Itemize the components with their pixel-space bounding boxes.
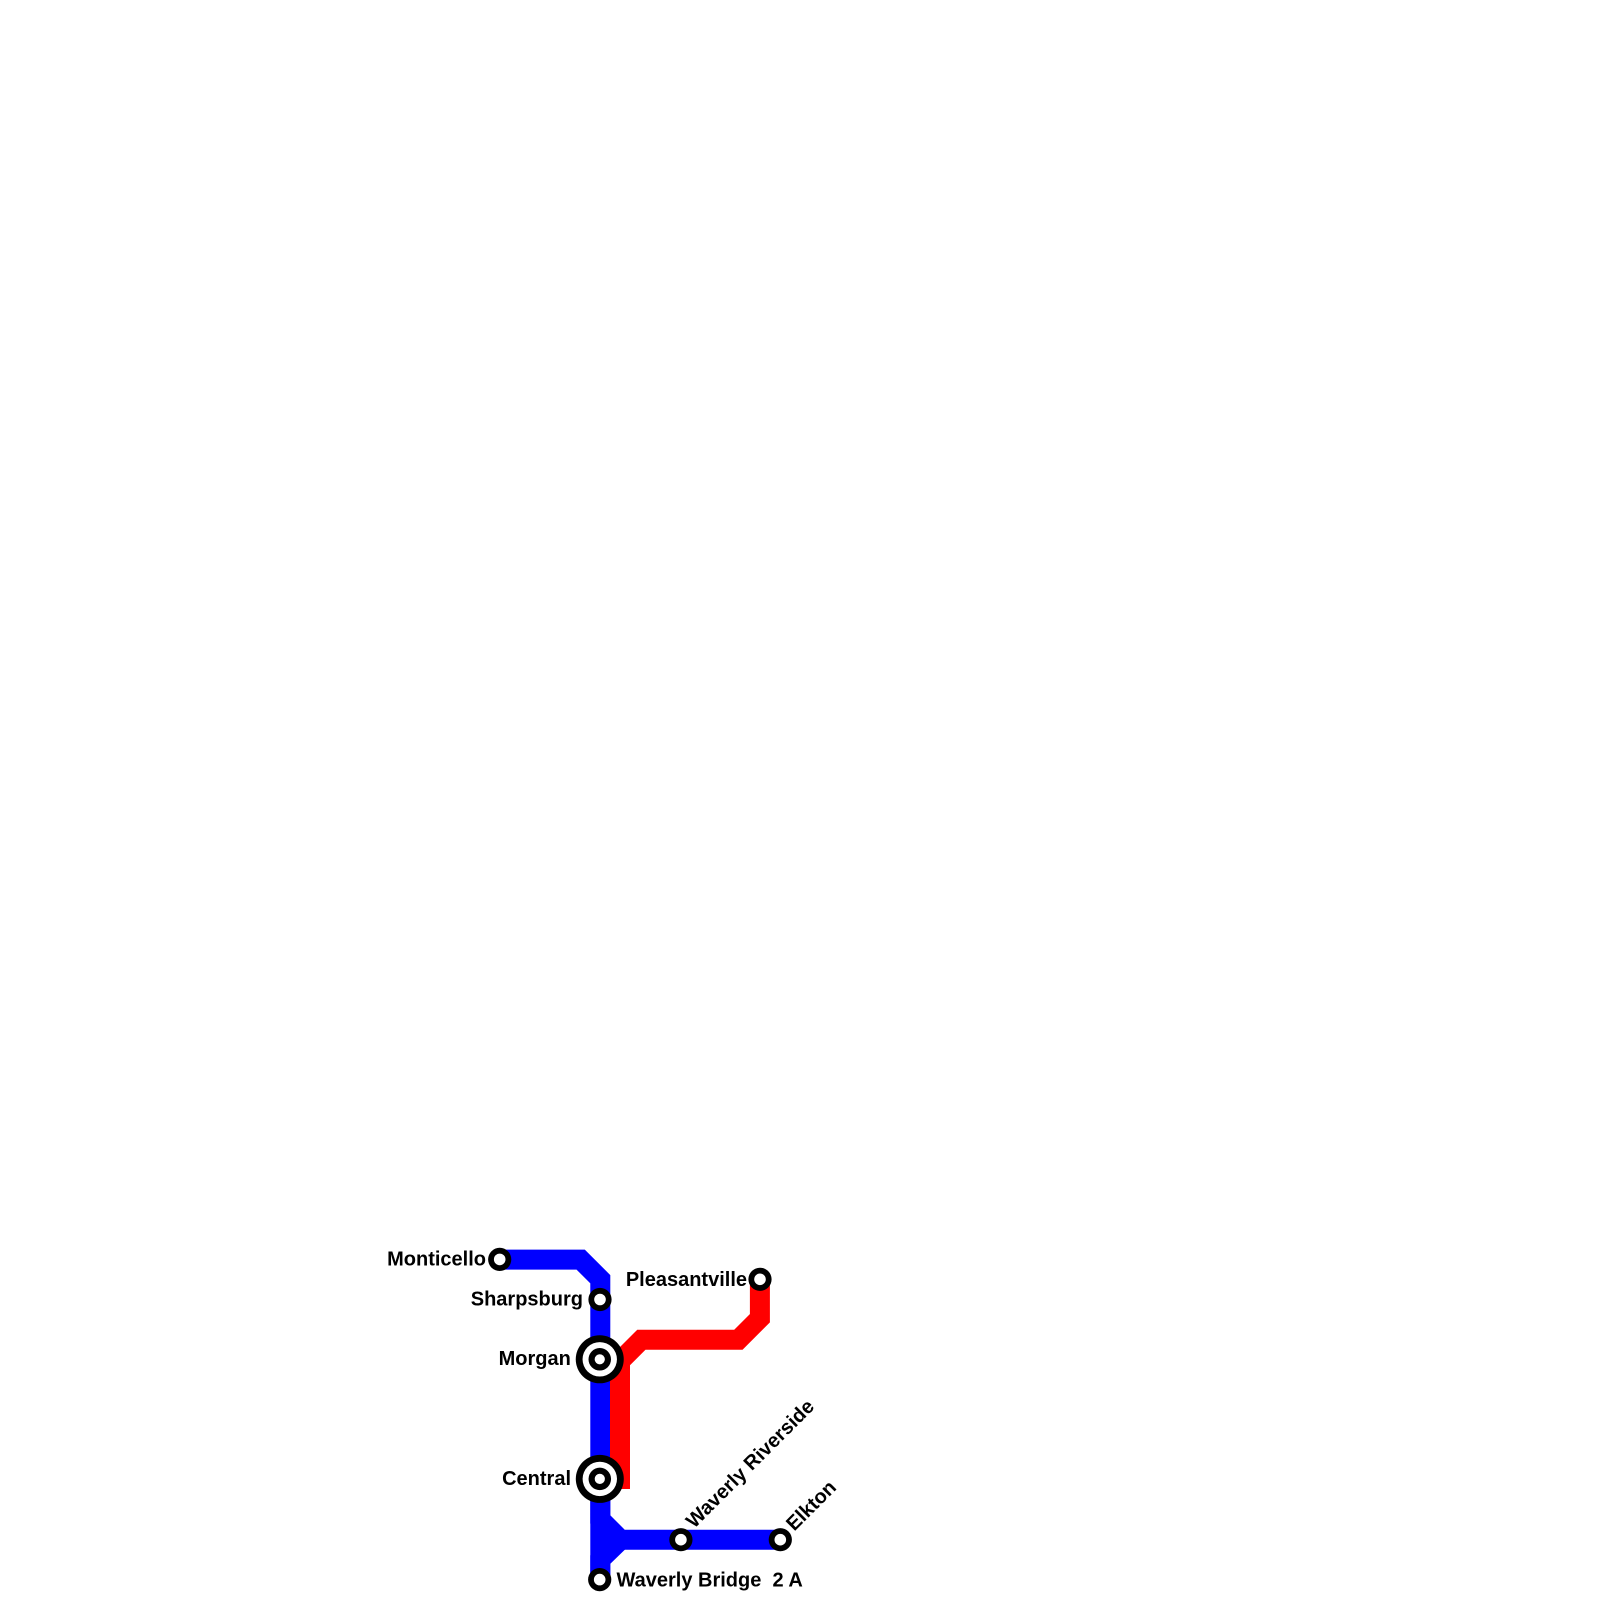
station Waverly Riverside <box>669 1528 692 1551</box>
station Pleasantville <box>748 1268 771 1291</box>
interchange station Morgan <box>576 1335 624 1383</box>
station Sharpsburg <box>588 1288 611 1311</box>
svg-text:Morgan: Morgan <box>499 1348 571 1370</box>
svg-text:Monticello: Monticello <box>387 1248 486 1270</box>
blue line branch: Central–Waverly Riverside–Elkton <box>600 1480 781 1540</box>
svg-text:Waverly Bridge 2 A: Waverly Bridge 2 A <box>617 1570 803 1592</box>
station Elkton <box>769 1528 792 1551</box>
blue line branch connector: Waverly Bridge–junction wedge <box>600 1540 620 1580</box>
blue line 2: Monticello–Sharpsburg–Morgan–Central–Waverly Bridge trunk <box>500 1260 600 1580</box>
svg-text:Sharpsburg: Sharpsburg <box>471 1289 583 1311</box>
station Waverly Bridge <box>588 1568 611 1591</box>
interchange station Central <box>576 1455 624 1503</box>
svg-text:Pleasantville: Pleasantville <box>626 1269 747 1291</box>
red line A: Pleasantville–Morgan–Central <box>620 1279 760 1489</box>
svg-text:Central: Central <box>502 1468 571 1490</box>
station Monticello <box>488 1248 511 1271</box>
